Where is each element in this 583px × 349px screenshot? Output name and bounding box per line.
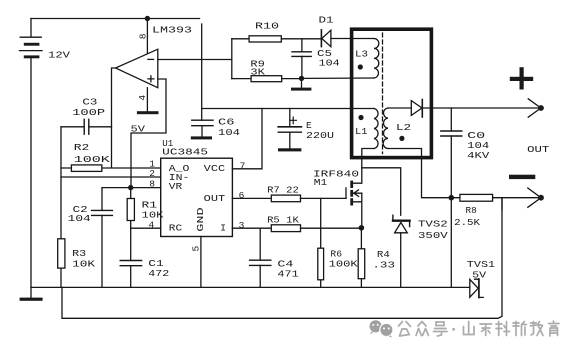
power bar 5V	[137, 111, 159, 114]
ground main bottom rail	[31, 286, 470, 288]
svg-text:RC: RC	[169, 223, 183, 234]
svg-text:LM393: LM393	[152, 25, 192, 36]
svg-text:R8: R8	[466, 205, 477, 216]
winding L1	[358, 109, 378, 149]
watermark icons	[370, 320, 394, 337]
svg-text:2.5K: 2.5K	[454, 217, 480, 228]
output terminal minus	[528, 188, 544, 207]
wire MOSFET drain from L1	[353, 149, 374, 184]
resistor R7	[232, 195, 300, 202]
capacitor C4	[250, 228, 271, 287]
resistor R1	[127, 188, 134, 229]
diode TVS1	[470, 279, 483, 298]
wire LM393 output down to pin1 line	[112, 68, 116, 168]
node junction VREF R1	[128, 185, 133, 190]
svg-text:L3: L3	[355, 49, 368, 60]
wire L2 bottom to output minus node	[388, 149, 451, 198]
capacitor C2	[92, 188, 113, 288]
svg-text:5V: 5V	[472, 270, 486, 281]
svg-text:472: 472	[148, 268, 169, 279]
svg-text:VCC: VCC	[204, 163, 226, 174]
wire UC3845 pin 2 line	[61, 176, 161, 178]
svg-text:.33: .33	[372, 260, 395, 271]
svg-text:4KV: 4KV	[467, 150, 489, 161]
svg-text:R4: R4	[377, 249, 390, 260]
ground symbol below C5	[291, 78, 311, 90]
wire LM393 inverting input to R9/R10 node	[158, 59, 232, 61]
resistor R2	[71, 165, 101, 172]
wire UC3845 pin 4 RC line	[131, 227, 161, 229]
svg-text:104: 104	[68, 213, 91, 224]
output terminal plus	[528, 99, 544, 117]
svg-text:3: 3	[239, 220, 245, 231]
winding L2	[383, 108, 404, 149]
wire 12V horizontal rail to transformer L1	[202, 108, 374, 110]
wire UC3845 pin 7 VCC riser	[232, 109, 262, 169]
svg-text:100K: 100K	[74, 154, 110, 165]
ground symbol bottom left	[20, 287, 43, 300]
wire R9 R10 left bracket	[231, 39, 233, 79]
resistor R10	[232, 36, 321, 42]
wire UC3845 pin 1 line	[61, 167, 161, 169]
battery 12V	[20, 19, 43, 288]
svg-text:6: 6	[239, 190, 245, 201]
IC U1 UC3845 box	[161, 158, 233, 236]
svg-text:R10: R10	[255, 20, 279, 31]
wire LM393 pin 4	[146, 88, 148, 112]
capacitor C5	[292, 39, 311, 79]
wire UC3845 pin 5 GND	[200, 237, 202, 288]
wire L3 bottom to ground node	[302, 77, 375, 79]
wire L2 top to rectifier	[388, 107, 411, 109]
symbol plus output	[510, 67, 533, 89]
svg-text:8: 8	[149, 179, 155, 190]
svg-text:10K: 10K	[72, 258, 95, 269]
svg-text:3K: 3K	[250, 67, 265, 78]
resistor R8	[451, 194, 541, 201]
resistor R9	[232, 76, 302, 82]
wire gate line	[301, 197, 347, 199]
diode TVS2	[393, 215, 410, 287]
wire 12V feed down to C6 node	[201, 24, 203, 120]
wire UC3845 pin 8 VREF line	[102, 187, 161, 189]
wire output minus to ground rail	[450, 198, 452, 288]
resistor R5	[232, 225, 361, 232]
svg-text:5V: 5V	[131, 123, 146, 134]
svg-text:R5 1K: R5 1K	[267, 214, 299, 225]
capacitor E 220U electrolytic	[278, 109, 301, 152]
svg-text:R7 22: R7 22	[267, 185, 299, 196]
svg-text:M1: M1	[314, 177, 328, 188]
node junction LM393 pin8 on 12V rail	[145, 16, 150, 21]
svg-text:12V: 12V	[48, 50, 70, 61]
transistor M1 IRF840	[346, 181, 362, 228]
capacitor C3	[61, 119, 112, 134]
capacitor C6	[191, 120, 213, 139]
transformer core box	[352, 29, 432, 157]
svg-text:R2: R2	[74, 142, 90, 153]
wire LM393 pin 8	[146, 19, 148, 54]
wire lower return loop to output minus	[62, 198, 502, 319]
winding L3	[352, 39, 379, 79]
svg-text:L1: L1	[355, 126, 368, 137]
svg-text:VR: VR	[169, 181, 183, 192]
svg-text:350V: 350V	[418, 230, 448, 241]
svg-text:104: 104	[218, 127, 240, 138]
resistor R3	[58, 239, 65, 268]
svg-text:5: 5	[191, 246, 202, 252]
svg-text:4: 4	[137, 95, 148, 101]
resistor R6	[318, 198, 324, 287]
node junction output minus C0	[449, 195, 455, 201]
wire feedback node vertical	[60, 127, 62, 288]
resistor R4	[358, 228, 365, 288]
svg-text:I: I	[220, 223, 226, 234]
wire 12V top rail	[31, 18, 200, 20]
node junction R9 C5 ground	[299, 76, 304, 81]
capacitor C0	[441, 108, 462, 198]
svg-text:4: 4	[149, 219, 155, 230]
op-amp U2 LM393	[116, 49, 158, 87]
svg-text:2: 2	[149, 168, 155, 179]
svg-text:TVS2: TVS2	[418, 219, 448, 230]
svg-text:D1: D1	[319, 15, 334, 26]
transformer core dashed line	[382, 33, 384, 154]
symbol minus output	[509, 175, 535, 179]
svg-text:L2: L2	[396, 122, 411, 133]
svg-text:471: 471	[277, 268, 299, 279]
diode output rectifier	[411, 100, 422, 118]
wire output plus line	[422, 107, 541, 109]
diode D1	[321, 30, 351, 47]
node junction MOSFET source sense	[359, 225, 365, 231]
svg-text:8: 8	[138, 33, 149, 39]
wire LM393 plus input to 5V VREF net	[131, 79, 166, 188]
svg-text:OUT: OUT	[527, 144, 549, 155]
svg-text:104: 104	[319, 57, 340, 68]
svg-text:220U: 220U	[306, 130, 334, 141]
svg-text:TVS1: TVS1	[467, 259, 496, 270]
svg-text:GND: GND	[195, 207, 206, 232]
svg-text:UC3845: UC3845	[162, 146, 208, 157]
svg-text:7: 7	[240, 160, 246, 171]
svg-text:100P: 100P	[72, 107, 105, 118]
wire output minus drop	[501, 198, 503, 210]
svg-text:100K: 100K	[329, 259, 358, 270]
wire drain clamp to TVS2	[362, 168, 401, 215]
watermark text 公众号·山东科新教育	[399, 321, 560, 336]
capacitor C1	[120, 228, 141, 287]
svg-text:OUT: OUT	[204, 193, 226, 204]
